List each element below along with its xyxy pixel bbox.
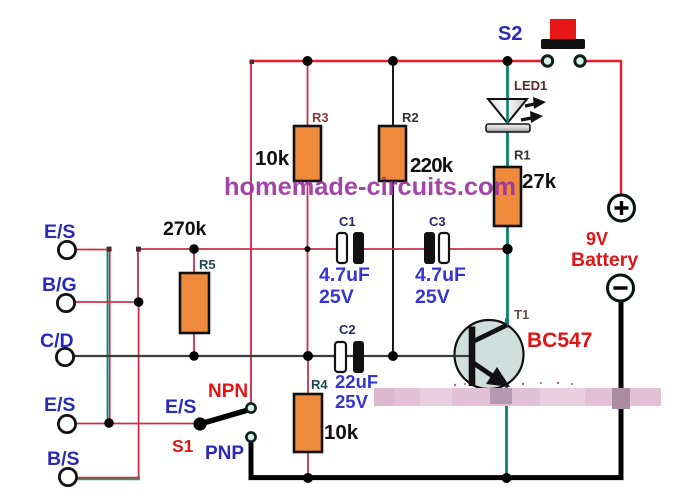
pushbutton S2 xyxy=(541,19,585,49)
svg-text:9V: 9V xyxy=(586,229,608,249)
junction node collector xyxy=(502,244,512,254)
svg-text:22uF: 22uF xyxy=(335,371,378,392)
svg-text:Battery: Battery xyxy=(571,249,638,271)
resistor R4 xyxy=(294,394,322,452)
wire C/D base row xyxy=(74,355,471,357)
junction node R3 crossing xyxy=(305,246,311,252)
wire teal R1 to collector xyxy=(506,225,509,327)
junction node emitter ground xyxy=(502,473,512,483)
resistor R1 xyxy=(494,167,521,226)
wire R5 bottom stub xyxy=(193,333,195,356)
capacitor C1 xyxy=(337,232,364,264)
wire E/S lower terminal to switch pole xyxy=(77,423,200,425)
resistor R5 xyxy=(180,273,209,333)
resistor R2 xyxy=(379,126,406,181)
wire S2 to battery plus xyxy=(585,61,621,196)
wire E/S top terminal to corner xyxy=(76,249,109,251)
svg-text:10k: 10k xyxy=(324,421,359,444)
svg-text:B/G: B/G xyxy=(42,274,77,296)
wire teal LED to R1 xyxy=(506,129,509,168)
svg-text:LED1: LED1 xyxy=(514,78,547,93)
battery positive terminal xyxy=(609,195,635,221)
wire C3 to collector node xyxy=(449,248,508,250)
capacitor C2 xyxy=(335,341,364,373)
junction node on rail at LED xyxy=(503,56,513,66)
switch S1 xyxy=(193,410,248,431)
S1 terminal NPN xyxy=(246,403,255,412)
wire ground rail xyxy=(251,301,621,478)
wire teal emitter to ground rail xyxy=(505,385,508,478)
junction node R2 bottom xyxy=(388,351,398,361)
corner elbow supply rail xyxy=(250,60,255,65)
svg-text:R5: R5 xyxy=(199,257,216,272)
svg-text:4.7uF: 4.7uF xyxy=(415,264,466,286)
wire R4 bottom xyxy=(307,452,309,478)
svg-text:C1: C1 xyxy=(339,214,356,229)
terminal E/S top xyxy=(58,241,75,258)
wire teal emitter bus vertical xyxy=(107,249,109,423)
svg-text:270k: 270k xyxy=(163,218,207,240)
junction node E/S bus xyxy=(104,418,114,428)
svg-text:R2: R2 xyxy=(402,110,419,125)
svg-text:10k: 10k xyxy=(255,147,290,170)
svg-text:25V: 25V xyxy=(335,391,369,412)
terminal C/D xyxy=(56,348,73,365)
S1 terminal PNP xyxy=(246,432,255,441)
svg-text:NPN: NPN xyxy=(208,381,248,402)
wire base row to C1 xyxy=(138,249,337,302)
svg-text:4.7uF: 4.7uF xyxy=(319,264,370,286)
capacitor C3 xyxy=(424,232,449,264)
corner elbow E/S bus xyxy=(107,247,112,252)
wire B/G to B/S vertical xyxy=(138,302,140,477)
svg-text:R1: R1 xyxy=(514,148,531,163)
wire R4 top xyxy=(307,356,309,394)
svg-text:27k: 27k xyxy=(522,170,557,193)
wire R3 column top xyxy=(307,61,309,126)
junction node R5 bottom xyxy=(189,351,199,361)
terminal B/S xyxy=(59,468,76,485)
svg-text:S1: S1 xyxy=(172,436,194,456)
svg-text:25V: 25V xyxy=(415,286,450,308)
wire R2 bottom xyxy=(392,181,394,356)
svg-text:BC547: BC547 xyxy=(527,329,592,352)
junction node base divider xyxy=(303,351,313,361)
LED LED1 xyxy=(486,97,546,132)
svg-text:R4: R4 xyxy=(311,377,328,392)
svg-text:homemade-circuits.com: homemade-circuits.com xyxy=(224,173,516,201)
junction node on rail at R2 xyxy=(388,56,398,66)
svg-text:25V: 25V xyxy=(319,286,354,308)
junction node R4 ground xyxy=(303,473,313,483)
svg-text:T1: T1 xyxy=(514,307,529,322)
junction node on rail at R3 xyxy=(303,56,313,66)
svg-text:E/S: E/S xyxy=(44,221,75,243)
svg-text:E/S: E/S xyxy=(44,394,75,416)
wire B/S horizontal green shadow xyxy=(69,478,140,480)
wire top positive rail xyxy=(250,60,548,63)
wire red emitter bus vertical xyxy=(109,249,111,423)
wire B/G terminal xyxy=(75,301,139,303)
svg-text:E/S: E/S xyxy=(165,396,196,418)
wire R5 top stub xyxy=(193,249,195,273)
battery negative terminal xyxy=(608,275,634,301)
svg-text:PNP: PNP xyxy=(205,443,244,464)
wire C1 to C3 xyxy=(363,248,425,250)
wire B/S horizontal xyxy=(69,477,140,479)
resistor R3 xyxy=(294,126,321,181)
svg-text:B/S: B/S xyxy=(47,448,80,470)
S2 terminal left xyxy=(542,56,552,66)
junction node B/G xyxy=(134,297,144,307)
svg-text:S2: S2 xyxy=(498,23,522,45)
wire R2 column top xyxy=(392,61,394,126)
watermark pink band xyxy=(374,382,661,409)
wire teal LED column top xyxy=(506,61,509,101)
transistor T1 BC547 xyxy=(454,318,524,389)
corner elbow base row xyxy=(136,247,141,252)
svg-text:R3: R3 xyxy=(312,110,329,125)
wire NPN supply vertical xyxy=(250,61,252,404)
wire R3 bottom to base node xyxy=(307,181,309,356)
svg-text:C2: C2 xyxy=(339,322,356,337)
svg-text:C3: C3 xyxy=(429,214,446,229)
svg-text:C/D: C/D xyxy=(40,330,74,352)
terminal E/S lower xyxy=(58,415,75,432)
S2 terminal right xyxy=(575,56,585,66)
junction node R5 top xyxy=(189,244,199,254)
terminal B/G xyxy=(57,294,74,311)
